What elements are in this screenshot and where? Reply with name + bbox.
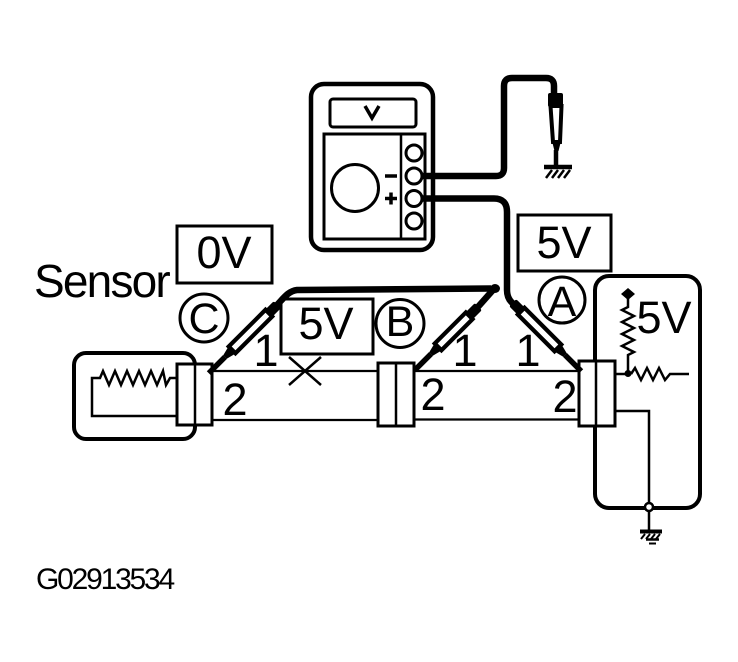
svg-text:1: 1	[515, 325, 540, 376]
svg-text:A: A	[548, 278, 577, 326]
svg-text:1: 1	[452, 325, 477, 376]
svg-text:5V: 5V	[298, 298, 353, 349]
svg-text:Sensor: Sensor	[34, 255, 170, 307]
svg-text:C: C	[188, 295, 219, 343]
svg-text:1: 1	[253, 325, 278, 376]
svg-text:2: 2	[552, 371, 577, 422]
svg-text:2: 2	[222, 374, 247, 425]
svg-text:2: 2	[420, 369, 445, 420]
svg-text:0V: 0V	[196, 227, 251, 278]
svg-text:G02913534: G02913534	[36, 563, 175, 596]
svg-text:5V: 5V	[636, 292, 691, 343]
svg-text:B: B	[386, 298, 415, 346]
svg-text:5V: 5V	[536, 217, 591, 268]
